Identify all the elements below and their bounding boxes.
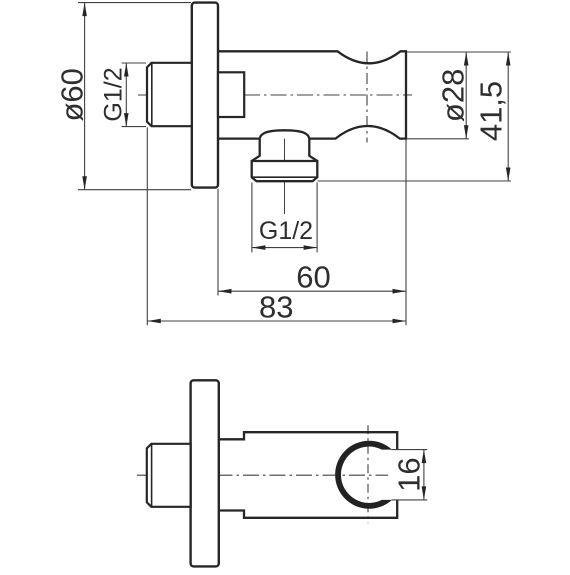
dimension G1/2 outlet: dimension line with arrows	[252, 247, 317, 249]
dimension 41,5: dimension line with arrows	[507, 52, 509, 181]
centerline vertical (cup axis, top view)	[367, 425, 369, 523]
svg-text:ø60: ø60	[55, 68, 90, 121]
wall plate (top view)	[191, 380, 219, 566]
dimension G1/2 inlet: extension lines	[122, 62, 147, 64]
centerline vertical (outlet axis, front view)	[284, 131, 286, 214]
neck square boss (front view)	[218, 72, 244, 117]
wall plate (front view)	[192, 3, 218, 188]
inlet thread chamfer line (front view)	[151, 63, 153, 126]
centerline vertical (holder cup axis, front view)	[366, 52, 368, 143]
svg-text:41,5: 41,5	[474, 81, 509, 141]
svg-text:ø28: ø28	[436, 69, 471, 122]
dimension ø60: dimension line with arrows	[84, 3, 86, 190]
dimension G1/2 outlet: extension lines	[251, 183, 253, 253]
dimension 60: dimension line with arrows	[218, 290, 406, 292]
inlet connector G1/2 (top view)	[147, 444, 191, 507]
svg-text:83: 83	[259, 289, 293, 324]
centerline horizontal (front view axis)	[138, 94, 412, 96]
centerline horizontal (top view axis)	[137, 474, 388, 476]
svg-text:G1/2: G1/2	[259, 217, 313, 245]
svg-text:16: 16	[392, 457, 427, 491]
dimension ø28: dimension line with arrows	[465, 52, 467, 139]
holder body (top view) with slot	[219, 432, 397, 518]
outlet dome cap (front view)	[260, 130, 310, 138]
slot edge / dimension 16 extension lines	[392, 449, 428, 451]
dimension 41,5: extension line	[318, 180, 512, 182]
outlet thread relief line	[252, 176, 318, 178]
dimension 83: extension line	[146, 127, 148, 325]
svg-text:60: 60	[296, 260, 330, 295]
dimension ø60: extension lines	[78, 2, 191, 4]
inlet connector G1/2 (front view)	[147, 63, 192, 126]
dimension 83: dimension line with arrows	[147, 320, 406, 322]
dimension 16: dimension line with arrows	[423, 450, 425, 500]
svg-text:G1/2: G1/2	[100, 67, 128, 121]
outlet dome skirt (front view)	[252, 139, 318, 161]
outlet thread collar G1/2 (front view)	[252, 161, 318, 181]
inlet thread chamfer line (top view)	[151, 444, 153, 507]
C-ring holder clip (top view)	[335, 441, 392, 509]
holder body tube (front view)	[218, 51, 406, 138]
dimension 60: extension lines	[217, 189, 219, 296]
dimension ø28: extension lines	[407, 51, 511, 53]
dimension G1/2 inlet: dimension line with arrows	[125, 63, 127, 127]
